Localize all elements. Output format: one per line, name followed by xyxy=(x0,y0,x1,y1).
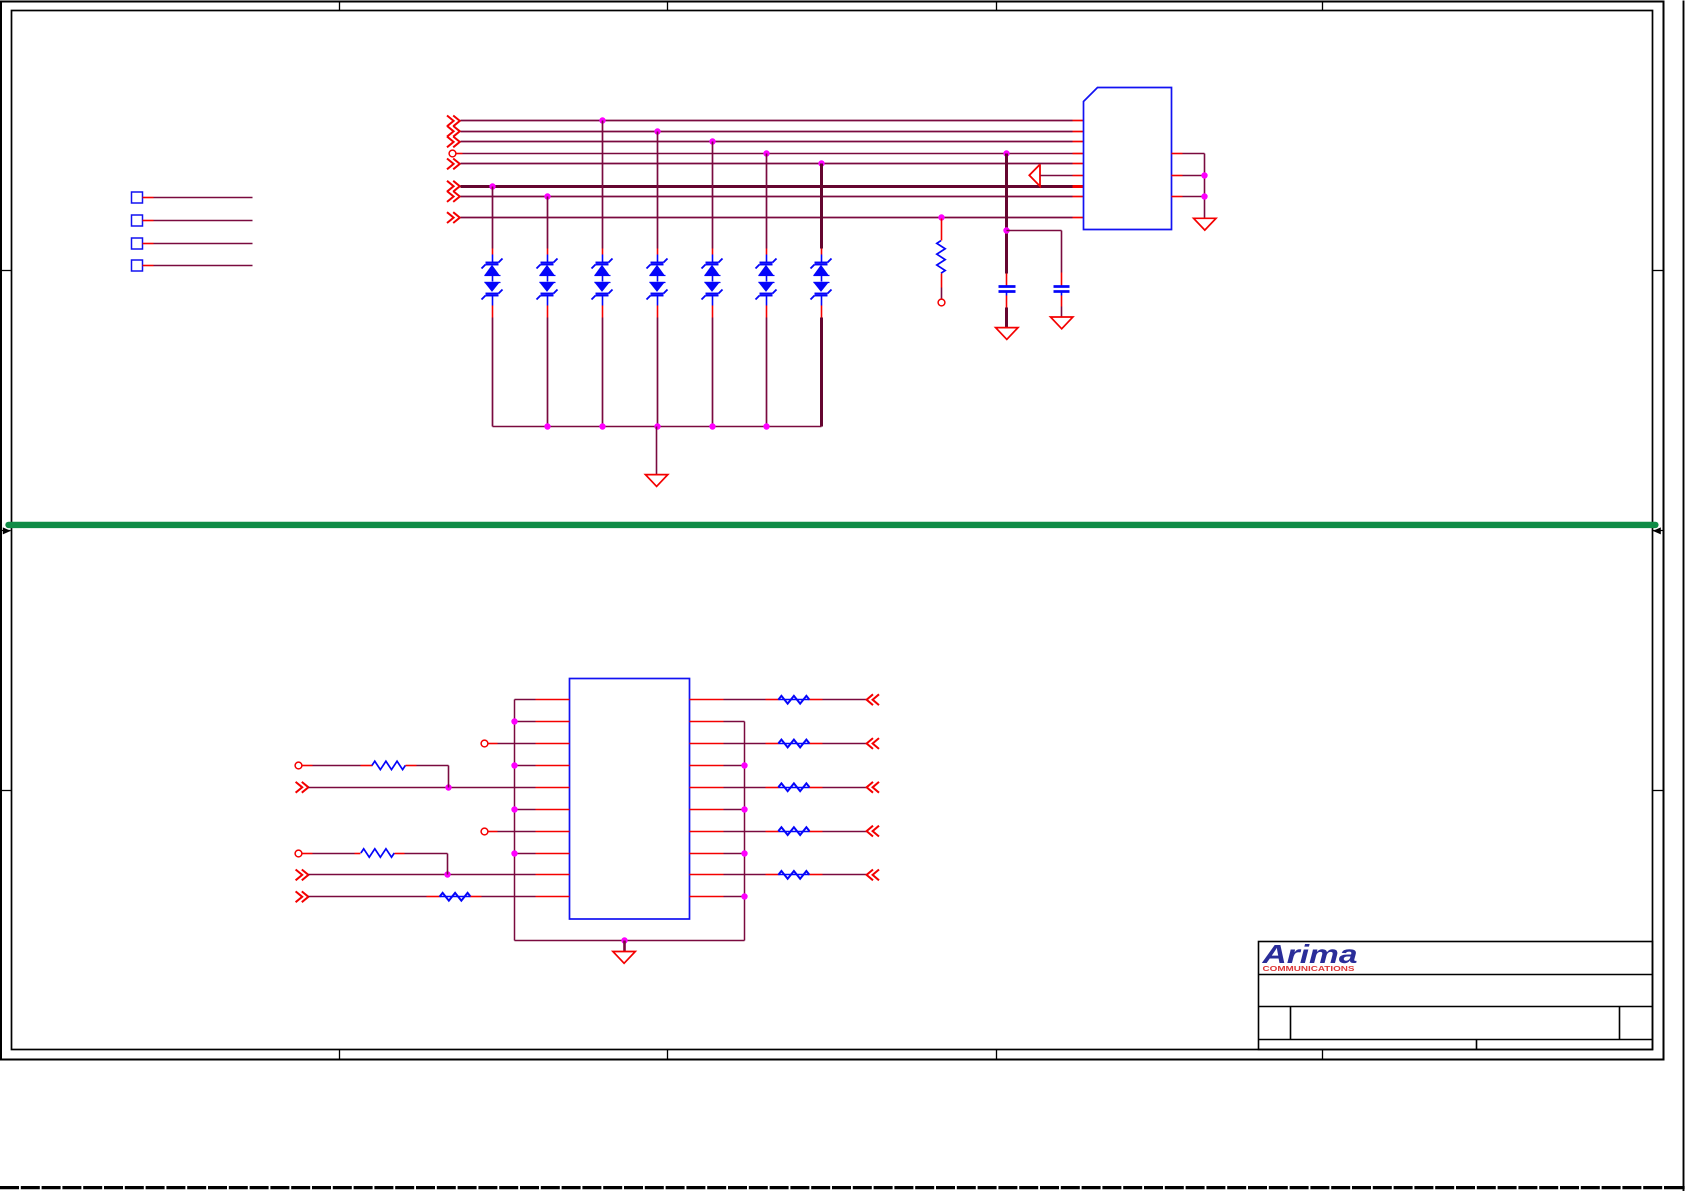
title block outline xyxy=(1259,942,1653,1050)
junction dots on right rail xyxy=(1201,172,1207,178)
IC U? (level shifter) xyxy=(570,679,690,920)
wire rail top to pin1 xyxy=(515,699,536,701)
wire below diode xyxy=(821,306,823,318)
red pin stub at connector xyxy=(1073,141,1084,143)
wire row1 to series resistor xyxy=(724,699,766,701)
wire bus line 5 xyxy=(447,159,454,170)
IC left pin 4 xyxy=(536,765,570,767)
resistor R (pulldown on line8) xyxy=(941,219,943,241)
ferrite/resistor small row10 xyxy=(440,896,471,898)
wire below diode xyxy=(602,306,604,318)
wire xyxy=(143,265,154,267)
IC left pin 7 xyxy=(536,831,570,833)
red pin stub at connector xyxy=(1073,196,1084,198)
wire below diode xyxy=(712,306,714,318)
red pin stub at connector xyxy=(1073,185,1084,188)
wire ground stub xyxy=(656,427,658,475)
wire rail to pin 6 xyxy=(515,809,536,811)
sheet right paper edge xyxy=(1683,1,1685,1191)
wire to off-page chevron xyxy=(810,831,823,833)
wire row9 xyxy=(309,874,536,876)
left rail wire xyxy=(514,700,516,941)
off-page chevron (left-pointing) xyxy=(867,870,873,881)
port arrow (left-pointing) into connector pin6 xyxy=(1029,164,1040,186)
resistor R upper xyxy=(372,761,405,769)
wire below diode xyxy=(547,306,549,318)
red pin stub at connector xyxy=(1073,120,1084,122)
right black arrow marker xyxy=(1653,530,1665,532)
wire to resistor xyxy=(313,853,355,855)
off-page chevron row9 xyxy=(296,870,303,881)
IC right pin 1 xyxy=(690,699,724,701)
wire bus line 2 xyxy=(447,126,454,137)
wire rail row10 xyxy=(724,896,745,898)
TVS diode D3 (bidirectional) xyxy=(602,255,604,263)
wire vertical for diode D2 xyxy=(547,197,549,249)
wire to resistor xyxy=(313,765,361,767)
IC right pin 8 xyxy=(690,853,724,855)
junction dot row5 xyxy=(445,784,451,790)
circle terminal line4 xyxy=(449,150,456,157)
wire below diode xyxy=(492,306,494,318)
wire bottom common bus of diodes xyxy=(493,426,822,428)
off-page chevron (left-pointing) xyxy=(867,694,873,705)
wire to off-page chevron xyxy=(810,743,823,745)
bottom wire between rails xyxy=(515,940,745,942)
IC right pin 10 xyxy=(690,896,724,898)
junction dot xyxy=(741,762,747,768)
IC right pin 9 xyxy=(690,874,724,876)
IC left pin 1 xyxy=(536,699,570,701)
ferrite/resistor small row5 xyxy=(779,787,810,789)
junction dot row9 xyxy=(444,871,450,877)
wire vertical for diode D6 xyxy=(766,154,768,249)
right rail wire xyxy=(744,722,746,941)
wire to second capacitor xyxy=(1007,230,1062,232)
wire bus line 6 xyxy=(447,181,454,192)
junction dot xyxy=(741,850,747,856)
wire bus line 1 xyxy=(447,116,454,127)
wire bus line 7 xyxy=(447,191,454,202)
ground for connector xyxy=(1194,218,1216,230)
junction dots on bottom bus xyxy=(544,423,550,429)
border zone tick marks bottom xyxy=(339,1050,341,1060)
wire row5 to series resistor xyxy=(724,787,766,789)
TVS diode D7 (bidirectional) xyxy=(821,255,823,263)
IC right pin 6 xyxy=(690,809,724,811)
title block row lines xyxy=(1259,974,1653,976)
border zone tick marks top xyxy=(339,2,341,11)
wire corner down xyxy=(448,766,450,788)
green section separator line xyxy=(9,522,1656,528)
junction dot at ground xyxy=(621,937,627,943)
wire rail to pin 2 xyxy=(515,721,536,723)
sheet bottom paper edge (dashed) xyxy=(0,1186,1685,1189)
circle terminal lower resistor xyxy=(295,850,302,857)
red pin stub at connector xyxy=(1073,153,1084,155)
wire xyxy=(471,896,482,898)
TVS diode D4 (bidirectional) xyxy=(657,255,659,263)
connector right pin 3 wire xyxy=(1172,196,1183,198)
IC left pin 9 xyxy=(536,874,570,876)
wire to off-page chevron xyxy=(810,699,823,701)
off-page chevron (left-pointing) xyxy=(867,826,873,837)
circle terminal upper resistor xyxy=(295,762,302,769)
IC left pin 10 xyxy=(536,896,570,898)
TVS diode D5 (bidirectional) xyxy=(712,255,714,263)
ground symbol below diode bus xyxy=(645,475,667,487)
circle terminal below resistor xyxy=(938,299,945,306)
square terminal 1 xyxy=(132,192,143,203)
wire vertical for diode D3 xyxy=(602,121,604,249)
junction dot xyxy=(741,806,747,812)
wire ground stub xyxy=(623,941,626,952)
wire rail row4 xyxy=(724,765,745,767)
wire bus line 3 xyxy=(447,137,454,148)
off-page chevron (left-pointing) xyxy=(867,738,873,749)
wire bus line 8 xyxy=(447,212,454,223)
ferrite/resistor small row9 xyxy=(779,874,810,876)
junction dot xyxy=(511,806,517,812)
wire corner down xyxy=(447,854,449,875)
junction dot xyxy=(511,762,517,768)
ferrite/resistor small row7 xyxy=(779,831,810,833)
IC left pin 6 xyxy=(536,809,570,811)
wire rail row6 xyxy=(724,809,745,811)
wire from resistor xyxy=(406,765,417,767)
wire row9 to series resistor xyxy=(724,874,766,876)
wire row7 to series resistor xyxy=(724,831,766,833)
wire xyxy=(143,197,154,199)
capacitor C2 xyxy=(1061,273,1063,286)
wire rail to pin 8 xyxy=(515,853,536,855)
capacitor C1 xyxy=(1006,274,1008,286)
off-page chevron row5 xyxy=(296,782,303,793)
IC right pin 7 xyxy=(690,831,724,833)
ground for C2 xyxy=(1051,317,1073,329)
connector right pin 1 wire xyxy=(1172,153,1183,155)
IC right pin 3 xyxy=(690,743,724,745)
svg-text:COMMUNICATIONS: COMMUNICATIONS xyxy=(1263,964,1355,973)
wire row3 to series resistor xyxy=(724,743,766,745)
wire rail to pin 4 xyxy=(515,765,536,767)
IC left pin 8 xyxy=(536,853,570,855)
wire to off-page chevron xyxy=(810,874,823,876)
junction dot xyxy=(511,850,517,856)
red pin stub at connector xyxy=(1073,131,1084,133)
TVS diode D1 (bidirectional) xyxy=(492,255,494,263)
wire xyxy=(143,220,154,222)
off-page chevron (left-pointing) xyxy=(867,782,873,793)
wire below diode xyxy=(657,306,659,318)
IC right pin 2 xyxy=(690,721,724,723)
wire rail row8 xyxy=(724,853,745,855)
IC right pin 5 xyxy=(690,787,724,789)
ferrite/resistor small row1 xyxy=(779,699,810,701)
junction dot xyxy=(741,893,747,899)
junction dots on bus lines xyxy=(599,117,605,123)
TVS diode D6 (bidirectional) xyxy=(766,255,768,263)
red pin stub at connector xyxy=(1073,163,1084,165)
wire vertical for diode D4 xyxy=(657,132,659,249)
circle terminal pin3 xyxy=(481,740,488,747)
circle terminal pin7 xyxy=(481,828,488,835)
IC left pin 3 xyxy=(536,743,570,745)
wire from resistor xyxy=(395,853,405,855)
capacitor rail thick wire from line4 xyxy=(1005,154,1008,274)
junction dot xyxy=(511,718,517,724)
border zone tick marks right xyxy=(1653,270,1665,272)
title block column dividers xyxy=(1290,1007,1292,1040)
wire row5 xyxy=(309,787,536,789)
connector right pin 2 wire xyxy=(1172,175,1183,177)
square terminal 4 xyxy=(132,260,143,271)
wire below diode xyxy=(766,306,768,318)
wire row10 xyxy=(309,896,427,898)
square terminal 3 xyxy=(132,238,143,249)
border zone tick marks left xyxy=(2,270,12,272)
IC left pin 2 xyxy=(536,721,570,723)
wire right ground rail xyxy=(1204,154,1206,219)
wire rail top row2 xyxy=(724,721,745,723)
TVS diode D2 (bidirectional) xyxy=(547,255,549,263)
ground symbol below IC xyxy=(613,952,635,964)
wire vertical for diode D7 xyxy=(820,164,823,249)
wire vertical for diode D5 xyxy=(712,142,714,249)
wire xyxy=(143,243,154,245)
ground for C1 xyxy=(996,328,1018,340)
wire from port arrow xyxy=(1041,175,1073,177)
wire to off-page chevron xyxy=(810,787,823,789)
resistor R lower xyxy=(361,849,394,857)
connector J1 (SIM socket outline) xyxy=(1084,88,1172,230)
square terminal 2 xyxy=(132,215,143,226)
IC left pin 5 xyxy=(536,787,570,789)
left black arrow marker xyxy=(1,530,11,532)
ferrite/resistor small row3 xyxy=(779,743,810,745)
red pin stub at connector xyxy=(1073,217,1084,219)
junction dot on cap rail xyxy=(1003,227,1009,233)
wire vertical for diode D1 xyxy=(492,187,494,249)
off-page chevron row10 xyxy=(296,891,303,902)
IC right pin 4 xyxy=(690,765,724,767)
